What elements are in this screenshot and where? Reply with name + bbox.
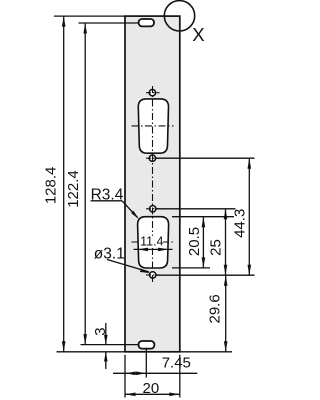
dimension 20 line [125,393,180,397]
extension line: lower connector lower hole to right (44.3 / 25 / 29.6) [157,274,255,276]
centre tick upper top hole [146,92,160,94]
centre tick upper bottom hole [146,157,160,159]
centre tick lower bottom hole [146,274,160,276]
horizontal centerline lower cutout (right stub) [162,241,174,243]
dimension 44.3 line [248,158,252,275]
svg-text:3: 3 [92,327,109,335]
dimension 7.45 line [113,372,197,376]
svg-text:X: X [192,24,204,45]
dimension text 11.4 [141,236,163,247]
dimension 11.4 inside lower cutout [134,248,173,252]
svg-text:122.4: 122.4 [65,170,82,208]
extension line: lower connector upper hole to right (25) [156,208,235,210]
detail circle X at panel top right [164,1,194,31]
label R3.4 with leader [91,187,139,220]
lower connector bottom screw hole [150,272,156,278]
svg-text:11.4: 11.4 [140,235,163,249]
upper connector bottom screw hole [149,155,155,161]
vertical centerline through connectors [152,86,154,282]
label ø3.1 with leader [94,246,150,274]
lower D-sub cutout [138,217,169,268]
extension line: bottom edge extended right (29.6) [180,351,232,353]
centre tick lower top hole [146,208,160,210]
extension line: bottom edge extended left (128.4 / 3) [57,351,126,353]
svg-text:25: 25 [208,239,225,256]
svg-text:20: 20 [143,380,160,397]
horizontal centerline lower cutout (left stub) [132,241,142,243]
svg-text:44.3: 44.3 [231,209,248,238]
extension line: top edge extended left (128.4) [54,15,125,17]
dimension 122.4 line [83,23,87,345]
lower connector top screw hole [150,206,156,212]
extension line: bottom slot center extended left (122.4 / 3) [81,344,139,346]
svg-text:7.45: 7.45 [162,354,191,371]
dimension 29.6 line [224,275,228,352]
dimension 3 line [104,323,108,369]
dimension 25 line [224,209,228,275]
extension line: lower cutout bottom edge to right (20.5) [172,267,210,269]
dimension 20.5 line [202,217,206,268]
front panel body [125,16,180,352]
upper D-sub cutout [138,99,168,153]
extension line: upper connector lower hole to right (44.3) [156,157,255,159]
extension line: panel right corner down (20) [179,355,181,398]
extension line: bottom slot center down (7.45) [145,345,147,378]
svg-text:128.4: 128.4 [43,167,60,205]
top mounting slot [139,19,154,26]
extension line: top slot center extended left (122.4) [79,22,139,24]
svg-text:29.6: 29.6 [206,294,223,323]
upper connector top screw hole [149,90,155,96]
extension line: lower cutout top edge to right (20.5) [172,216,234,218]
svg-text:20.5: 20.5 [186,227,203,256]
dimension 128.4 line [62,16,66,352]
bottom mounting slot [139,341,155,349]
horizontal centerline upper cutout [132,125,174,127]
extension line: panel left corner down (7.45 / 20) [124,355,126,398]
